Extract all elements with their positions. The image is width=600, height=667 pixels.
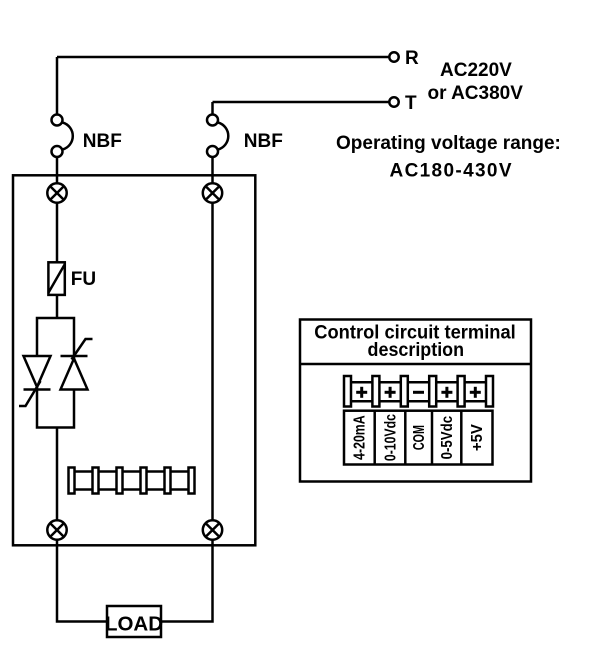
plus sign 4 xyxy=(470,387,481,398)
control panel terminal bars xyxy=(344,376,493,407)
terminal R xyxy=(389,52,398,61)
LOAD box xyxy=(107,606,161,637)
wire SCR module to bottom-left terminal xyxy=(56,428,59,521)
svg-text:COM: COM xyxy=(411,425,428,450)
svg-text:+5V: +5V xyxy=(469,423,486,451)
terminal X bottom-left xyxy=(47,520,66,539)
thyristor SCR2 (right, pointing up) xyxy=(61,356,88,390)
wire top-right terminal to bottom-right terminal xyxy=(211,203,214,521)
plus sign 1 xyxy=(356,387,367,398)
wire right vertical from T to NBF2 xyxy=(211,102,214,114)
svg-text:4-20mA: 4-20mA xyxy=(352,415,369,460)
svg-text:or AC380V: or AC380V xyxy=(428,83,524,104)
gate of SCR2 xyxy=(72,339,93,360)
svg-text:NBF: NBF xyxy=(244,131,283,152)
svg-text:T: T xyxy=(405,93,417,114)
svg-text:R: R xyxy=(405,48,419,69)
terminal strip (heatsink) in box xyxy=(69,468,195,494)
fuse FU xyxy=(48,262,64,295)
wire left vertical from R to NBF1 xyxy=(56,57,59,114)
wire bottom-left terminal to LOAD xyxy=(57,540,107,622)
terminal X top-right xyxy=(203,183,222,202)
svg-text:description: description xyxy=(368,339,465,361)
svg-text:AC220V: AC220V xyxy=(440,60,512,81)
control panel box xyxy=(300,320,531,482)
plus sign 2 xyxy=(385,387,396,398)
wire R top horizontal xyxy=(57,56,389,59)
svg-text:LOAD: LOAD xyxy=(105,612,163,635)
control panel terminal strip lines xyxy=(348,381,490,384)
plus sign 3 xyxy=(441,387,452,398)
gate of SCR1 xyxy=(19,381,41,406)
wire NBF1 to box xyxy=(56,157,59,184)
terminal X top-left xyxy=(47,183,66,202)
control panel cells row xyxy=(344,411,493,465)
wire fuse to SCR module xyxy=(56,295,59,318)
wire bottom-right terminal to LOAD xyxy=(161,540,213,622)
wire top-left terminal to fuse xyxy=(56,203,59,262)
breaker NBF1 xyxy=(52,115,73,158)
breaker NBF2 xyxy=(207,115,228,158)
control panel title divider xyxy=(300,363,531,366)
SCR module rectangle xyxy=(37,318,74,428)
svg-text:0-5Vdc: 0-5Vdc xyxy=(439,416,456,460)
thyristor SCR1 (left, pointing down) xyxy=(24,356,51,390)
enclosure box xyxy=(13,175,255,545)
wire NBF2 to box xyxy=(211,157,214,184)
svg-text:0-10Vdc: 0-10Vdc xyxy=(382,414,399,461)
svg-text:AC180-430V: AC180-430V xyxy=(390,161,513,182)
terminal X bottom-right xyxy=(203,520,222,539)
svg-text:NBF: NBF xyxy=(83,131,122,152)
minus sign xyxy=(413,391,424,394)
svg-text:Operating voltage range:: Operating voltage range: xyxy=(336,133,561,154)
wire T horizontal xyxy=(213,101,390,104)
svg-text:FU: FU xyxy=(71,269,96,290)
terminal T xyxy=(389,97,398,106)
